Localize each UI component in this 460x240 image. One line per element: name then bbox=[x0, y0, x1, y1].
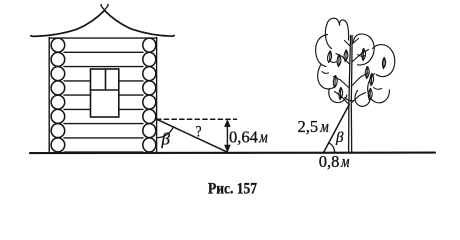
bottom-mid-right lobe bbox=[355, 91, 370, 107]
svg-text:0,8: 0,8 bbox=[319, 152, 340, 171]
foliage bottom near trunk bbox=[345, 98, 355, 101]
svg-text:0,64: 0,64 bbox=[229, 127, 258, 146]
svg-text:м: м bbox=[319, 117, 329, 136]
ground bbox=[30, 152, 435, 155]
svg-text:Рис. 157: Рис. 157 bbox=[208, 181, 257, 198]
svg-text:β: β bbox=[335, 130, 344, 146]
bottom-left lower lobe bbox=[329, 89, 347, 103]
svg-text:2,5: 2,5 bbox=[298, 117, 319, 136]
window bbox=[91, 69, 119, 117]
right wall line bbox=[156, 38, 158, 153]
svg-text:м: м bbox=[258, 127, 268, 146]
svg-text:м: м bbox=[340, 152, 350, 171]
dashed horizontal line bbox=[157, 118, 237, 120]
angle arc at tree bbox=[329, 143, 335, 153]
leaf tips (dark) bbox=[329, 48, 385, 90]
left middle lobe bbox=[316, 35, 328, 67]
bottom-left lobe bbox=[318, 65, 334, 90]
tree trunk bbox=[349, 36, 351, 153]
right tall lobe bbox=[353, 34, 374, 65]
horizontal log lines bbox=[49, 38, 156, 152]
hypotenuse bbox=[157, 119, 228, 152]
bottom-right lobe bbox=[368, 74, 390, 103]
far-right lobe bbox=[373, 45, 395, 77]
left log-end circles bbox=[51, 38, 65, 152]
leaves bbox=[328, 49, 386, 101]
inner twig curves bbox=[358, 55, 366, 57]
rope bbox=[324, 105, 350, 153]
tree branches bbox=[334, 39, 369, 105]
roof right slope bbox=[105, 11, 175, 37]
tree foliage: top-left tall lobe bbox=[316, 18, 395, 106]
vertical measure arrow bbox=[225, 120, 231, 152]
left wall line bbox=[48, 38, 50, 153]
svg-text:?: ? bbox=[196, 124, 202, 141]
right log-end circles bbox=[143, 38, 156, 152]
angle arc at house bbox=[157, 127, 174, 138]
roof peak cross bbox=[101, 4, 108, 12]
roof left slope bbox=[31, 11, 105, 37]
svg-text:β: β bbox=[161, 130, 171, 149]
